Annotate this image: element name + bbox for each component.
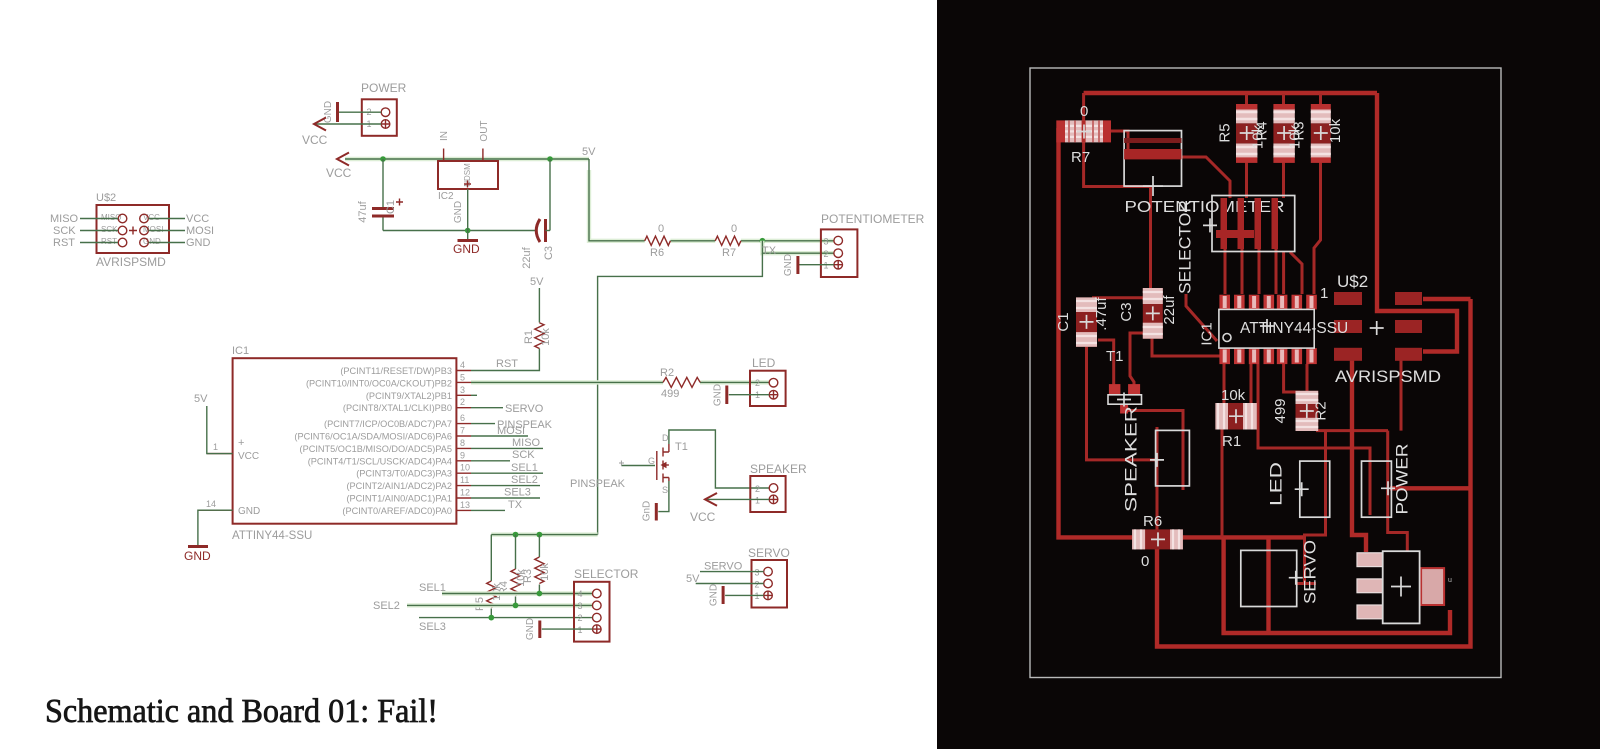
- wire R1 to R6 line: [1221, 428, 1224, 537]
- ground symbol at LED: [713, 384, 727, 406]
- svg-text:1: 1: [578, 625, 583, 635]
- connector POTENTIOMETER: [821, 212, 925, 277]
- svg-text:R5: R5: [1217, 123, 1234, 142]
- svg-text:14: 14: [206, 499, 216, 509]
- wire pot to C3: [1149, 187, 1152, 293]
- svg-text:(PCINT9/XTAL2)PB1: (PCINT9/XTAL2)PB1: [366, 391, 452, 401]
- wire selector to IC1 pad6: [1290, 252, 1302, 294]
- svg-text:SCK: SCK: [512, 449, 535, 461]
- svg-text:SELECTOR: SELECTOR: [574, 567, 639, 581]
- svg-text:IC1: IC1: [232, 345, 249, 357]
- svg-text:GND: GND: [186, 237, 211, 249]
- svg-text:POWER: POWER: [1392, 444, 1411, 515]
- svg-text:POWER: POWER: [361, 81, 407, 95]
- svg-text:+: +: [238, 437, 244, 449]
- wire GND rail: [383, 230, 535, 232]
- transistor T1 n-mosfet: [619, 433, 688, 495]
- svg-text:GND: GND: [713, 384, 724, 406]
- potentiometer footprint (board): [1124, 131, 1284, 216]
- wire PINSPEAK net at PA7: [471, 419, 553, 431]
- svg-text:VCC: VCC: [302, 133, 328, 147]
- wire selector pin1 to GND: [542, 628, 593, 630]
- wire inner bottom trace: [1224, 537, 1450, 633]
- svg-text:(PCINT0/AREF/ADC0)PA0: (PCINT0/AREF/ADC0)PA0: [342, 506, 452, 516]
- svg-text:(PCINT11/RESET/DW)PB3: (PCINT11/RESET/DW)PB3: [340, 366, 452, 376]
- wire SEL2 to selector pin3: [373, 600, 593, 612]
- svg-text:ATTINY44-SSU: ATTINY44-SSU: [232, 530, 312, 542]
- resistor R6 0: [645, 223, 671, 259]
- wire SEL3 to selector pin2: [419, 618, 593, 633]
- svg-text:GND: GND: [453, 242, 480, 256]
- svg-text:OUT: OUT: [479, 120, 490, 141]
- capacitor C1 footprint (board): [1055, 296, 1110, 346]
- svg-text:5V: 5V: [530, 276, 544, 288]
- node junction R4 top: [513, 532, 519, 538]
- wire SEL1 net at PA3: [471, 462, 543, 474]
- svg-text:VCC: VCC: [326, 166, 352, 180]
- capacitor C3 footprint (board): [1118, 288, 1178, 339]
- wire IC1 pad5 jog to R2 top: [1284, 364, 1300, 392]
- wire GND to servo pin1: [725, 594, 764, 596]
- svg-text:SCK: SCK: [53, 225, 76, 237]
- wire top border trace: [1084, 91, 1377, 95]
- svg-text:SEL2: SEL2: [511, 474, 538, 486]
- svg-text:GND: GND: [709, 584, 720, 606]
- wire POWER pin2 to GND: [339, 111, 381, 113]
- wire servo stub right: [1296, 582, 1316, 585]
- svg-text:1: 1: [824, 261, 829, 271]
- svg-text:SEL2: SEL2: [373, 600, 400, 612]
- wire SCK net: [471, 449, 535, 461]
- svg-text:C3: C3: [1118, 302, 1135, 321]
- IC1 ATTINY44 footprint (board): [1199, 295, 1349, 364]
- svg-text:PINSPEAK: PINSPEAK: [570, 478, 626, 490]
- transistor T1 footprint (board): [1106, 348, 1142, 414]
- wire pot pin1 to GND: [798, 264, 834, 266]
- wire left border trace: [1059, 128, 1304, 537]
- resistor R5 footprint (board): [1217, 104, 1258, 163]
- wire IC1 pad4 to power rail: [1258, 364, 1370, 515]
- VCC arrow at rail: [326, 153, 352, 181]
- svg-text:R7: R7: [722, 247, 736, 259]
- wire IC1 GND: [198, 510, 233, 546]
- svg-text:GND: GND: [184, 549, 211, 563]
- wire TX net at PA0: [471, 499, 523, 511]
- ground symbol at SELECTOR: [525, 618, 540, 640]
- svg-text:9: 9: [460, 450, 465, 460]
- wire R5 bottom into selector: [1245, 157, 1248, 198]
- wire SEL2 net at PA2: [471, 474, 540, 486]
- wire R2 bottom through LED: [1296, 431, 1388, 584]
- wire SEL1 to selector pin4: [419, 582, 593, 594]
- ground symbol at pot: [783, 254, 798, 276]
- svg-text:(PCINT10/INT0/OC0A/CKOUT)PB2: (PCINT10/INT0/OC0A/CKOUT)PB2: [306, 378, 452, 388]
- net labels around U$2: [50, 213, 214, 249]
- capacitor C1 47uf: [357, 159, 403, 231]
- wire selector pads to IC1 pads: [1225, 200, 1284, 294]
- wire C1 bottom to speaker: [1087, 342, 1158, 460]
- wire 5V bus over resistor network: [491, 532, 597, 536]
- svg-text:T1: T1: [1106, 348, 1124, 365]
- resistor R2 499: [660, 367, 700, 400]
- ground symbol below IC1: [184, 547, 211, 564]
- wire IC1 pad1 to R1 left: [1223, 364, 1226, 405]
- svg-text:6: 6: [460, 413, 465, 423]
- svg-text:4: 4: [460, 360, 465, 370]
- svg-text:7: 7: [460, 426, 465, 436]
- svg-text:3: 3: [824, 237, 829, 247]
- svg-text:ATTINY44-SSU: ATTINY44-SSU: [1240, 320, 1348, 337]
- wire power right edge down to regulator: [1388, 431, 1408, 552]
- svg-text:R6: R6: [650, 247, 664, 259]
- resistor R6 footprint (board): [1132, 513, 1183, 570]
- svg-text:C1: C1: [385, 200, 397, 214]
- svg-text:499: 499: [1272, 398, 1289, 423]
- wire SERVO net to servo pin3: [700, 561, 764, 573]
- node junction R5 bottom: [488, 615, 494, 621]
- schematic sheet background: [0, 0, 937, 749]
- svg-text:MISO: MISO: [512, 437, 541, 449]
- svg-text:0: 0: [1141, 553, 1149, 570]
- connector U$2 AVRISPSMD box: [96, 192, 169, 269]
- svg-text:4: 4: [578, 589, 583, 599]
- svg-text:R3: R3: [522, 569, 534, 583]
- board background panel: [937, 0, 1600, 749]
- wire R3 stub up: [1319, 94, 1322, 109]
- wire right vertical to U$2: [1377, 93, 1457, 352]
- resistor R1 footprint (board): [1215, 387, 1256, 450]
- svg-text:T1: T1: [675, 441, 688, 453]
- board outline frame: [1030, 68, 1501, 678]
- wire R5 stub up: [1245, 94, 1248, 109]
- voltage regulator footprint (board): [1357, 551, 1452, 623]
- svg-text:10k: 10k: [539, 563, 551, 581]
- resistor R7 footprint (board): [1056, 103, 1111, 166]
- resistor R7 0: [715, 223, 741, 259]
- node junction C1/rail: [380, 156, 386, 162]
- wire C1 top to C3 top: [1092, 296, 1147, 299]
- wire power cross to right border: [1390, 486, 1471, 490]
- svg-text:3: 3: [460, 385, 465, 395]
- svg-text:SEL1: SEL1: [511, 462, 538, 474]
- svg-text:SERVO: SERVO: [748, 546, 790, 560]
- node TX junction: [760, 238, 766, 244]
- svg-text:POTENTIOMETER: POTENTIOMETER: [821, 212, 925, 226]
- svg-text:RST: RST: [53, 237, 75, 249]
- wire U$2 row3 right stub: [1400, 360, 1403, 431]
- svg-text:(PCINT4/T1/SCL/USCK/ADC4)PA4: (PCINT4/T1/SCL/USCK/ADC4)PA4: [308, 456, 452, 466]
- svg-text:MISO: MISO: [50, 213, 79, 225]
- svg-text:LED: LED: [1266, 462, 1285, 506]
- U$2 pin circles: [118, 214, 148, 247]
- wire IC1 pad3 to R1 right: [1250, 364, 1253, 405]
- svg-text:GND: GND: [783, 254, 794, 276]
- svg-text:(PCINT1/AIN0/ADC1)PA1: (PCINT1/AIN0/ADC1)PA1: [346, 494, 452, 504]
- svg-text:SEL3: SEL3: [419, 621, 446, 633]
- wire T1 source to GND: [658, 481, 669, 512]
- wire PB1 stub: [471, 394, 477, 396]
- wire IC2 GND stub: [467, 189, 469, 239]
- svg-text:VCC: VCC: [238, 451, 259, 462]
- svg-text:10: 10: [460, 463, 470, 473]
- connector SERVO: [748, 546, 790, 608]
- svg-text:5: 5: [460, 372, 465, 382]
- svg-text:2: 2: [824, 249, 829, 259]
- svg-text:SCK: SCK: [101, 225, 118, 234]
- wire U$2 to MOSI: [149, 230, 186, 232]
- svg-text:IN: IN: [439, 131, 450, 141]
- node junction R3 top: [537, 532, 543, 538]
- svg-text:G: G: [648, 456, 655, 466]
- svg-text:R1: R1: [523, 330, 535, 344]
- svg-text:10k: 10k: [540, 328, 552, 346]
- selector footprint (board): [1176, 196, 1295, 295]
- wire 5V rail: [345, 157, 589, 161]
- svg-text:R4: R4: [1254, 121, 1271, 140]
- svg-text:LED: LED: [752, 356, 776, 370]
- svg-text:(PCINT3/T0/ADC3)PA3: (PCINT3/T0/ADC3)PA3: [356, 469, 452, 479]
- svg-text:GnD: GnD: [642, 501, 653, 522]
- IC1 pin numbers: [206, 360, 470, 510]
- svg-text:(PCINT8/XTAL1/CLKI)PB0: (PCINT8/XTAL1/CLKI)PB0: [343, 403, 452, 413]
- wire U$2 to VCC: [149, 218, 186, 220]
- wire 5V drop to R6 run: [589, 159, 834, 241]
- svg-text:10k: 10k: [1327, 118, 1344, 143]
- ground symbol at T1: [642, 501, 657, 522]
- svg-text:TX: TX: [508, 499, 523, 511]
- svg-text:10k: 10k: [1221, 387, 1246, 404]
- svg-text:5V: 5V: [582, 146, 596, 158]
- wire pot left leg to T1: [1130, 333, 1146, 386]
- wire SEL3 net at PA1: [471, 487, 540, 499]
- svg-text:5V: 5V: [194, 393, 208, 405]
- svg-text:12: 12: [460, 488, 470, 498]
- svg-text:GND: GND: [453, 201, 464, 223]
- capacitor C3 22uf: [521, 159, 555, 269]
- wire RST to U$2: [80, 242, 118, 244]
- IC1 right pin labels: [294, 366, 452, 516]
- svg-text:1: 1: [1320, 285, 1328, 302]
- wire SPEAKER pin1 to VCC: [705, 498, 769, 500]
- VCC arrow at SPEAKER: [690, 493, 717, 524]
- svg-text:499: 499: [661, 388, 679, 400]
- connector SELECTOR: [574, 567, 639, 642]
- wire long 5V feed down-left: [598, 253, 763, 534]
- svg-text:0: 0: [658, 223, 664, 235]
- resistor R4 10k: [498, 535, 527, 606]
- svg-text:SERVO: SERVO: [505, 403, 544, 415]
- svg-text:SERVO: SERVO: [1301, 540, 1320, 604]
- svg-text:13: 13: [460, 500, 470, 510]
- svg-text:R7: R7: [1071, 149, 1090, 166]
- svg-text:0: 0: [731, 223, 737, 235]
- svg-text:SPEAKER: SPEAKER: [750, 462, 807, 476]
- resistor R1 10k: [523, 323, 552, 349]
- resistor R3 footprint (board): [1287, 104, 1345, 163]
- wire U$2 row3 to regulator: [1352, 358, 1366, 552]
- svg-text:3: 3: [755, 568, 760, 578]
- wire PB2 net to LED with resistor R2: [471, 380, 769, 384]
- wire MISO to U$2: [80, 218, 118, 220]
- wire T1 drain to SPEAKER pin2: [669, 430, 769, 488]
- svg-text:(PCINT5/OC1B/MISO/DO/ADC5)PA5: (PCINT5/OC1B/MISO/DO/ADC5)PA5: [300, 444, 452, 454]
- svg-text:IC1: IC1: [1199, 322, 1216, 345]
- wire R7 to pot top: [1108, 131, 1128, 152]
- wire R4 stub up: [1282, 94, 1285, 109]
- svg-text:U$2: U$2: [96, 192, 116, 204]
- svg-text:47uf: 47uf: [357, 200, 369, 222]
- led footprint (board): [1266, 461, 1329, 517]
- wire LED pin1 to GND: [729, 394, 769, 396]
- wire MISO net: [471, 437, 543, 449]
- voltage regulator IC2: [438, 120, 498, 223]
- node junction R3 bottom: [537, 591, 543, 597]
- wire junction to pot pin2: [762, 241, 834, 253]
- wire servo center vertical: [1266, 537, 1270, 633]
- svg-text:R6: R6: [1143, 513, 1162, 530]
- svg-text:Schematic and Board 01: Fail!: Schematic and Board 01: Fail!: [45, 693, 438, 730]
- wire right border top link: [1423, 297, 1471, 301]
- resistor R4 footprint (board): [1250, 104, 1295, 163]
- connector SPEAKER: [750, 462, 807, 512]
- svg-text:SEL1: SEL1: [419, 582, 446, 594]
- node junction regulator GND: [465, 228, 471, 234]
- svg-text:1: 1: [755, 496, 760, 506]
- svg-text:(PCINT2/AIN1/ADC2)PA2: (PCINT2/AIN1/ADC2)PA2: [346, 481, 452, 491]
- svg-text:2: 2: [755, 378, 760, 388]
- svg-text:VCC: VCC: [186, 213, 209, 225]
- svg-text:RST: RST: [496, 358, 518, 370]
- ground symbol below IC2: [453, 241, 480, 257]
- connector LED: [750, 356, 786, 406]
- svg-text:IC2: IC2: [438, 191, 454, 202]
- svg-text:2: 2: [755, 580, 760, 590]
- svg-text:R1: R1: [1222, 433, 1241, 450]
- svg-text:AVRISPSMD: AVRISPSMD: [96, 255, 166, 269]
- svg-text:SEL3: SEL3: [504, 487, 531, 499]
- svg-text:R2: R2: [660, 367, 674, 379]
- wire IC1 pad6 to R2: [1306, 364, 1309, 393]
- wire pot right to selector: [1178, 157, 1230, 198]
- wire SERVO net at PB0: [471, 403, 544, 415]
- wire T1 gate diagonal to IC1: [1098, 294, 1217, 386]
- svg-text:C3: C3: [543, 246, 555, 260]
- wire C3 bottom to IC1: [1152, 334, 1221, 356]
- svg-text:GND: GND: [323, 101, 334, 123]
- servo footprint (board): [1241, 540, 1320, 607]
- svg-text:S: S: [662, 485, 668, 495]
- node junction C3/rail: [547, 156, 553, 162]
- svg-text:MOSI: MOSI: [497, 425, 525, 437]
- svg-text:SERVO: SERVO: [704, 561, 743, 573]
- wire trace under R7 to potentiometer: [1084, 93, 1151, 187]
- VCC arrow at POWER: [302, 118, 328, 148]
- svg-text:C1: C1: [1055, 312, 1072, 331]
- wire R6 bottom to bottom border: [1157, 299, 1471, 647]
- node junction R4 bottom: [513, 603, 519, 609]
- svg-text:.47uf: .47uf: [1093, 296, 1110, 330]
- resistor R3 10k: [522, 535, 551, 594]
- svg-text:1: 1: [213, 442, 218, 452]
- wire POWER pin1 to VCC: [314, 123, 381, 125]
- svg-text:2: 2: [755, 484, 760, 494]
- svg-text:2: 2: [460, 397, 465, 407]
- wire speaker left vertical: [1156, 427, 1159, 532]
- svg-text:0: 0: [1080, 103, 1088, 120]
- wire MOSI net: [471, 425, 528, 437]
- resistor R5 10k: [474, 535, 503, 618]
- svg-text:GND: GND: [525, 618, 536, 640]
- IC IC1 ATTINY44-SSU body: [232, 345, 456, 542]
- svg-text:D: D: [662, 433, 669, 443]
- wire R3 bottom jog down: [1314, 157, 1321, 294]
- svg-text:U$2: U$2: [1337, 272, 1368, 291]
- svg-text:GND: GND: [238, 506, 260, 517]
- svg-text:AVRISPSMD: AVRISPSMD: [1335, 368, 1441, 386]
- wire SCK to U$2: [80, 230, 118, 232]
- resistor R2 footprint (board): [1272, 391, 1330, 431]
- wire IC1 VCC 5V: [194, 393, 233, 454]
- connector POWER box: [361, 81, 407, 136]
- connector U$2 pads (board): [1320, 272, 1441, 386]
- svg-text:2: 2: [578, 613, 583, 623]
- svg-text:VCC: VCC: [690, 510, 716, 524]
- svg-text:(PCINT7/ICP/OC0B/ADC7)PA7: (PCINT7/ICP/OC0B/ADC7)PA7: [324, 419, 452, 429]
- svg-text:SELECTOR: SELECTOR: [1176, 200, 1195, 294]
- wire 5V to servo pin2: [686, 573, 764, 585]
- svg-text:R3: R3: [1291, 121, 1308, 140]
- IC1 pin stubs: [198, 371, 471, 511]
- svg-text:22uf: 22uf: [521, 246, 533, 268]
- svg-text:(PCINT6/OC1A/SDA/MOSI/ADC6)PA6: (PCINT6/OC1A/SDA/MOSI/ADC6)PA6: [294, 432, 452, 442]
- speaker footprint (board): [1122, 406, 1190, 512]
- ground symbol at POWER: [323, 101, 338, 123]
- svg-text:11: 11: [460, 475, 469, 485]
- svg-text:22uf: 22uf: [1161, 295, 1178, 325]
- svg-text:RST: RST: [101, 237, 117, 246]
- svg-text:8: 8: [460, 438, 465, 448]
- svg-text:R2: R2: [1313, 401, 1330, 420]
- svg-text:MOSI: MOSI: [186, 225, 214, 237]
- svg-text:3: 3: [578, 601, 583, 611]
- ground symbol at SERVO: [709, 584, 724, 606]
- wire RST net with resistor R1: [471, 276, 544, 371]
- svg-text:TX: TX: [762, 245, 777, 257]
- svg-text:u: u: [1448, 577, 1452, 584]
- wire U$2 to GND: [149, 242, 186, 244]
- wire T1 tab to speaker right: [1126, 411, 1183, 491]
- wire R4 bottom into selector: [1282, 157, 1285, 198]
- svg-text:SPEAKER: SPEAKER: [1122, 406, 1141, 512]
- power connector footprint (board): [1362, 444, 1412, 518]
